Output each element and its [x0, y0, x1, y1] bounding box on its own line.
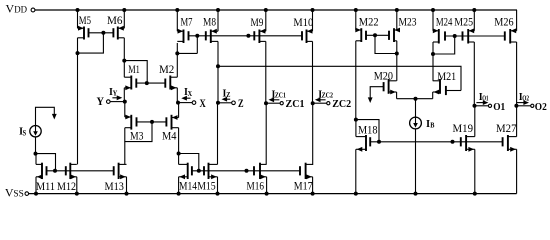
- wire M21 source to tail: [432, 92, 434, 99]
- wire M23 drain stub: [396, 41, 398, 54]
- svg-text:M17: M17: [294, 180, 313, 192]
- node M22-M23 gates: [373, 33, 377, 37]
- wire M6 drain down: [123, 38, 125, 61]
- wire M6 source to VDD: [123, 10, 125, 28]
- transistor M16: [259, 163, 261, 179]
- wire M26 source to VDD rail end: [516, 10, 518, 31]
- VDD rail junction: [311, 8, 315, 12]
- node M6 drain / M1 drain: [122, 59, 126, 63]
- VSS terminal: [25, 192, 29, 196]
- transistor M27: [507, 135, 509, 151]
- Is stub arrowhead: [52, 114, 57, 120]
- node gate line junction: [246, 34, 250, 38]
- wire M5-M6 gates to M5 drain: [78, 33, 104, 53]
- wire M5 drain stub: [77, 38, 79, 53]
- wire ZC2 to M17 drain: [312, 103, 314, 165]
- svg-text:ZC1: ZC1: [275, 92, 286, 100]
- node M11 drain / Is tie: [34, 152, 38, 156]
- wire M26 drain down: [516, 42, 518, 106]
- VDD rail junction: [216, 8, 220, 12]
- transistor M18: [365, 135, 367, 151]
- wire M11 diode tie: [36, 154, 56, 171]
- wire IB bottom to VSS: [415, 129, 417, 194]
- wire X node to M4 source: [178, 103, 180, 118]
- VSS rail junction: [75, 192, 79, 196]
- svg-text:ZC2: ZC2: [332, 99, 351, 110]
- VSS rail junction: [354, 192, 358, 196]
- current source Is circle: [30, 126, 41, 137]
- node M1-M2 gates: [145, 81, 149, 85]
- wire M14 drain to M14-M15 gates (diode): [179, 154, 199, 171]
- svg-text:M23: M23: [399, 17, 417, 29]
- node M5 drain: [76, 51, 80, 55]
- node M11-M12 gates: [53, 169, 57, 173]
- svg-text:M22: M22: [359, 17, 379, 29]
- VDD rail junction: [175, 8, 179, 12]
- ZC1 terminal: [280, 102, 283, 105]
- svg-text:O1: O1: [493, 102, 505, 113]
- node M7-M8 gates: [195, 34, 199, 38]
- transistor M12: [69, 163, 71, 179]
- node O2: [514, 104, 518, 108]
- transistor M25: [467, 29, 469, 44]
- wire ZC1 to M16 drain: [265, 103, 267, 164]
- VDD rail junction: [122, 8, 126, 12]
- svg-text:M11: M11: [36, 181, 55, 193]
- IB internal arrowhead: [413, 123, 418, 128]
- wire M18-M27 common gate line: [370, 141, 502, 143]
- svg-text:M12: M12: [57, 181, 76, 193]
- wire O1 terminal lead: [475, 105, 489, 107]
- node Y: [123, 100, 127, 104]
- svg-text:X: X: [200, 98, 207, 110]
- wire O2 terminal lead: [516, 105, 530, 107]
- M20 gate input arrowhead: [368, 97, 373, 103]
- wire M4 drain to M14 drain: [178, 154, 180, 165]
- node M23 drain: [395, 52, 399, 56]
- ZC2 terminal: [327, 102, 330, 105]
- IO2 current arrow: [517, 102, 526, 104]
- transistor M9: [258, 30, 260, 44]
- wire M18 gate tie loop: [356, 120, 379, 142]
- Y terminal: [107, 100, 111, 104]
- svg-text:M4: M4: [162, 130, 177, 142]
- wire Z terminal lead: [218, 102, 232, 104]
- transistor M3: [130, 115, 132, 130]
- wire M8 source to VDD: [217, 10, 219, 31]
- VDD rail junction: [472, 8, 476, 12]
- Is internal arrow shaft: [35, 126, 37, 132]
- wire M10 source to VDD: [312, 10, 314, 31]
- node ZC2: [311, 101, 315, 105]
- wire X terminal lead: [178, 102, 192, 104]
- wire M1 source to Y node: [123, 88, 125, 102]
- wire tail line: [397, 98, 433, 100]
- wire M11-M13 common gate line: [47, 170, 114, 172]
- VSS rail junction: [414, 192, 418, 196]
- wire M22 drain down: [355, 41, 357, 120]
- node X: [176, 101, 180, 105]
- wire M2 source to X node: [176, 88, 178, 103]
- IZC2 current arrow: [318, 99, 326, 101]
- wire M7 drain tie: [177, 52, 197, 54]
- svg-text:Z: Z: [238, 98, 244, 110]
- node M8 drain Z-bias takeoff: [216, 64, 220, 68]
- transistor M5: [83, 27, 85, 40]
- svg-text:M21: M21: [437, 71, 456, 83]
- VSS rail junction: [311, 192, 315, 196]
- node M22 drain M18 gate tie: [354, 118, 358, 122]
- svg-text:M15: M15: [197, 180, 216, 192]
- node M5-M6 gates: [101, 31, 105, 35]
- wire Y terminal lead: [110, 101, 125, 103]
- IX current arrowhead: [181, 96, 187, 101]
- wire M25 drain down: [473, 42, 475, 106]
- wire M22 drain to M18 drain: [355, 120, 357, 137]
- wire M5-M6 gate line: [89, 32, 114, 34]
- transistor M14: [187, 163, 189, 179]
- node M18 gate: [377, 140, 381, 144]
- wire M22-M23 gates to M23 drain: [375, 35, 397, 53]
- VDD terminal: [31, 8, 35, 12]
- svg-text:M5: M5: [79, 15, 91, 27]
- transistor M21: [439, 79, 441, 94]
- svg-text:M3: M3: [130, 130, 144, 142]
- node M3-M4 gates: [150, 120, 154, 124]
- IO1 current arrowhead: [483, 100, 489, 105]
- transistor M13: [118, 163, 120, 179]
- node gate line junction before M19: [451, 140, 455, 144]
- wire Is top stub: [36, 107, 55, 125]
- node M7 drain: [175, 51, 179, 55]
- IZ current arrow: [224, 98, 230, 100]
- wire O2 to M27 drain: [516, 106, 518, 137]
- svg-text:M20: M20: [374, 70, 394, 82]
- IY current arrow: [112, 97, 119, 99]
- svg-text:DD: DD: [14, 5, 27, 15]
- transistor M11: [41, 163, 43, 179]
- wire M27 source to VSS rail end: [516, 149, 518, 193]
- wire M11 drain stub: [35, 154, 37, 165]
- node Z: [216, 101, 220, 105]
- IZC1 current arrowhead: [269, 97, 275, 102]
- svg-text:M27: M27: [496, 123, 517, 135]
- wire M9 source to VDD: [265, 10, 267, 31]
- svg-text:ZC2: ZC2: [322, 92, 334, 100]
- wire M18 source to VSS: [355, 149, 357, 193]
- VDD rail junction: [354, 8, 358, 12]
- node gate line junction before M16: [245, 169, 249, 173]
- svg-text:M7: M7: [181, 17, 193, 29]
- wire M12 source to VSS: [76, 177, 78, 194]
- wire M8 drain down: [217, 41, 219, 66]
- VSS rail junction: [177, 192, 181, 196]
- wire ZC1 terminal lead: [266, 102, 280, 104]
- svg-text:O2: O2: [535, 102, 547, 113]
- node M24-M25 gates: [453, 34, 457, 38]
- VSS rail: [29, 193, 517, 195]
- VSS rail junction: [473, 192, 477, 196]
- transistor M8: [210, 30, 212, 44]
- wire Z node to M15 drain: [217, 103, 219, 165]
- svg-text:M18: M18: [358, 124, 378, 136]
- VSS rail junction: [265, 192, 269, 196]
- wire Is bottom to M11 drain: [35, 137, 37, 154]
- svg-text:V: V: [6, 2, 15, 16]
- X terminal: [192, 101, 196, 105]
- node M14-M15 gates: [197, 169, 201, 173]
- wire M13 source to VSS: [126, 177, 128, 194]
- wire M23 drain to M20 drain: [396, 54, 398, 81]
- wire M17 source to VSS: [312, 177, 314, 194]
- svg-text:SS: SS: [13, 188, 23, 198]
- wire M3 drain to gates (diode): [125, 122, 152, 142]
- wire Y node to M3 source: [124, 102, 126, 117]
- wire M16 source to VSS: [266, 177, 268, 194]
- svg-text:M16: M16: [247, 180, 265, 192]
- VDD rail junction: [431, 8, 435, 12]
- svg-text:M8: M8: [203, 17, 216, 29]
- wire M24 drain to M21 drain: [432, 54, 434, 81]
- wire ZC2 terminal lead: [313, 102, 327, 104]
- wire M4 drain down: [178, 128, 180, 154]
- transistor M15: [208, 163, 210, 179]
- wire M5 source to VDD: [77, 10, 79, 28]
- IZC2 current arrowhead: [315, 97, 321, 102]
- transistor M1: [130, 76, 132, 90]
- wire Z to M21 gate feedback line: [218, 66, 461, 90]
- IX current arrow: [184, 97, 191, 99]
- wire M21 gate lead: [446, 90, 461, 92]
- wire M1-M2 gate line: [136, 82, 165, 84]
- node ZC1: [264, 101, 268, 105]
- wire M6 drain to M1 drain: [123, 61, 125, 78]
- IZC1 current arrow: [271, 99, 279, 101]
- wire M24 source to VDD: [432, 10, 434, 31]
- VDD rail junction: [264, 8, 268, 12]
- IO2 current arrowhead: [523, 100, 529, 105]
- svg-text:X: X: [188, 89, 193, 98]
- wire M3-M4 gate line: [137, 121, 167, 123]
- node M4 drain / M14 diode tie: [177, 152, 181, 156]
- transistor M10: [306, 30, 308, 44]
- IB internal arrow shaft: [415, 118, 417, 124]
- wire M20 source to tail: [396, 92, 398, 99]
- wire M10 drain down: [312, 41, 314, 103]
- transistor M19: [465, 135, 467, 151]
- transistor M23: [393, 28, 395, 42]
- transistor M20: [388, 79, 390, 94]
- wire M24 drain stub: [432, 42, 434, 54]
- wire M9 drain down: [265, 41, 267, 103]
- wire M7 gates to drain (diode): [196, 36, 198, 54]
- svg-text:M9: M9: [251, 17, 264, 29]
- svg-text:M2: M2: [159, 64, 175, 76]
- O2 terminal: [531, 104, 534, 107]
- wire M11 source to VSS: [35, 177, 37, 194]
- VDD rail junction: [395, 8, 399, 12]
- svg-text:Y: Y: [97, 96, 105, 108]
- wire M22 source to VDD: [355, 10, 357, 30]
- svg-text:M13: M13: [105, 181, 125, 193]
- Z terminal: [232, 101, 236, 105]
- VDD rail junction: [76, 8, 80, 12]
- wire M14-M17 common gate line: [192, 170, 300, 172]
- svg-text:S: S: [23, 129, 27, 138]
- svg-text:M25: M25: [454, 17, 473, 29]
- transistor M6: [117, 27, 119, 40]
- IZ current arrowhead: [222, 97, 228, 102]
- svg-text:M6: M6: [107, 15, 123, 27]
- wire M22-M23 gate line: [366, 34, 389, 36]
- node tail to IB: [414, 97, 418, 101]
- wire M24 gates to drain (diode): [433, 36, 455, 54]
- node O1: [473, 104, 477, 108]
- transistor M26: [509, 29, 511, 44]
- wire M19 source to VSS: [474, 149, 476, 193]
- svg-text:M26: M26: [494, 17, 514, 29]
- wire IB top: [415, 99, 417, 118]
- transistor M24: [438, 29, 440, 44]
- transistor M7: [183, 30, 185, 44]
- wire M1 drain to M1-M2 gates: [124, 61, 147, 84]
- VSS rail junction: [216, 192, 220, 196]
- wire M7 drain stub: [176, 43, 178, 53]
- transistor M2: [169, 76, 171, 90]
- wire M15 source to VSS: [217, 177, 219, 194]
- IY current arrowhead: [117, 95, 123, 100]
- svg-text:M10: M10: [293, 17, 313, 29]
- wire M7 drain to M2 drain: [176, 53, 178, 77]
- transistor M17: [305, 163, 307, 179]
- transistor M4: [171, 115, 173, 130]
- wire M14 source to VSS: [178, 177, 180, 194]
- svg-text:M1: M1: [128, 64, 140, 76]
- VSS rail junction: [34, 192, 38, 196]
- wire M7-M10 common gate line: [189, 35, 303, 37]
- wire Z column: [217, 66, 219, 103]
- M20 gate input stub: [370, 87, 383, 99]
- wire M3 drain column to M13 drain: [124, 142, 126, 165]
- wire M5 drain column to M12 drain: [77, 53, 79, 164]
- wire M23 source to VDD: [396, 10, 398, 30]
- wire M25 source to VDD: [473, 10, 475, 31]
- node M24 drain: [431, 52, 435, 56]
- svg-text:M14: M14: [179, 180, 197, 192]
- Is internal arrowhead: [33, 131, 38, 136]
- wire M24-M26 common gate line: [445, 35, 505, 37]
- current source IB circle: [410, 117, 422, 129]
- svg-text:B: B: [430, 120, 434, 129]
- wire O1 to M19 drain: [474, 106, 476, 137]
- VSS rail junction: [125, 192, 129, 196]
- IO1 current arrow: [476, 102, 485, 104]
- wire M7 source to VDD: [176, 10, 178, 31]
- svg-text:M24: M24: [436, 17, 453, 29]
- O1 terminal: [488, 104, 491, 107]
- VDD rail: [35, 9, 517, 11]
- transistor M22: [360, 28, 362, 42]
- svg-text:M19: M19: [453, 123, 474, 135]
- svg-text:ZC1: ZC1: [286, 99, 305, 110]
